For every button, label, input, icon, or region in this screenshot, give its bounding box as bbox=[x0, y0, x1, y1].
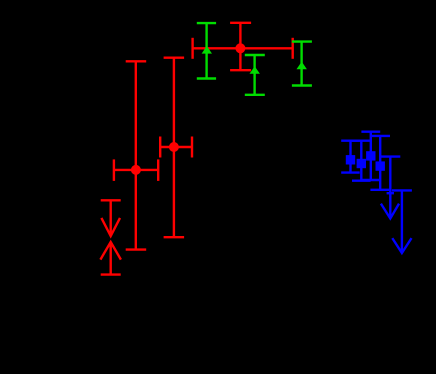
A1 upper-limit bar bbox=[381, 155, 401, 157]
R3 x-error bar bbox=[114, 169, 158, 171]
B3 y-error bar bbox=[370, 132, 372, 180]
G2 y-error bar bbox=[253, 55, 255, 95]
A2 arrowhead bbox=[392, 238, 411, 253]
B4 y-error bar bbox=[379, 136, 381, 190]
R1 y-error bar bbox=[239, 23, 241, 70]
B1 square marker bbox=[346, 155, 355, 164]
G3 triangle marker bbox=[297, 62, 307, 70]
A2 upper-limit bar bbox=[392, 189, 412, 191]
G1 triangle marker bbox=[202, 46, 212, 54]
G1 y-error bar bbox=[205, 23, 207, 78]
B3 square marker bbox=[366, 151, 375, 160]
B1 y-error bar bbox=[349, 141, 351, 173]
A1 small cap bbox=[387, 192, 394, 194]
G3 y-error bar bbox=[300, 42, 302, 86]
B2 square marker bbox=[357, 159, 366, 168]
R1 x-error bar bbox=[193, 47, 293, 49]
R1 circle marker bbox=[235, 43, 245, 53]
R2 x-error bar bbox=[160, 146, 192, 148]
G2 triangle marker bbox=[250, 66, 260, 74]
R2 y-error bar bbox=[173, 58, 175, 238]
R3 circle marker bbox=[131, 165, 141, 175]
R4 double limit arrow bbox=[101, 199, 121, 201]
B4 square marker bbox=[376, 161, 385, 170]
A1 arrowhead bbox=[381, 204, 399, 219]
R2 circle marker bbox=[169, 142, 179, 152]
A1 arrow shaft bbox=[389, 157, 391, 219]
B2 y-error bar bbox=[360, 141, 362, 181]
A2 arrow shaft bbox=[401, 190, 403, 253]
R3 y-error bar bbox=[135, 61, 137, 249]
